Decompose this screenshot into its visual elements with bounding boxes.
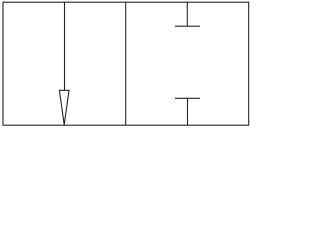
current-direction arrow (hollow downward arrowhead touching bottom border) xyxy=(59,90,69,125)
capacitor lower plate xyxy=(175,97,200,99)
wire (left cell vertical lead from top border to arrow) xyxy=(64,2,66,90)
capacitor upper plate xyxy=(175,25,200,27)
enclosure rectangle (outer box) xyxy=(3,2,249,125)
wire (bottom-right lead from lower plate to bottom border) xyxy=(187,98,189,125)
wire (middle partition vertical line) xyxy=(125,2,127,125)
wire (top-right lead from top border to upper plate) xyxy=(186,2,188,26)
